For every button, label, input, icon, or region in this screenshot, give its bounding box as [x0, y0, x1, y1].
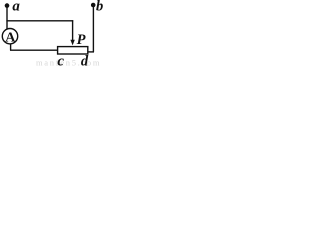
- rheostat P body: [58, 47, 88, 54]
- svg-text:b: b: [96, 0, 103, 15]
- background: [0, 0, 105, 67]
- wire: b down: [92, 5, 94, 52]
- wire: into rheostat right end: [88, 51, 94, 53]
- svg-text:a: a: [12, 0, 20, 15]
- ammeter A circle: [2, 29, 17, 44]
- svg-text:manfen5.com: manfen5.com: [36, 58, 101, 68]
- wire: top horizontal: [6, 20, 73, 22]
- wire: ammeter bottom stub: [10, 44, 12, 50]
- wire: bottom horizontal to rheostat: [10, 49, 58, 51]
- svg-text:A: A: [5, 30, 16, 45]
- svg-text:P: P: [77, 32, 86, 48]
- wire: wiper vertical drop: [72, 20, 74, 41]
- svg-text:d: d: [81, 53, 89, 67]
- node a terminal dot: [5, 3, 10, 8]
- wire: a down to ammeter: [6, 6, 8, 29]
- wiper arrowhead: [70, 40, 74, 46]
- node b terminal dot: [91, 3, 96, 8]
- svg-text:c: c: [57, 54, 64, 67]
